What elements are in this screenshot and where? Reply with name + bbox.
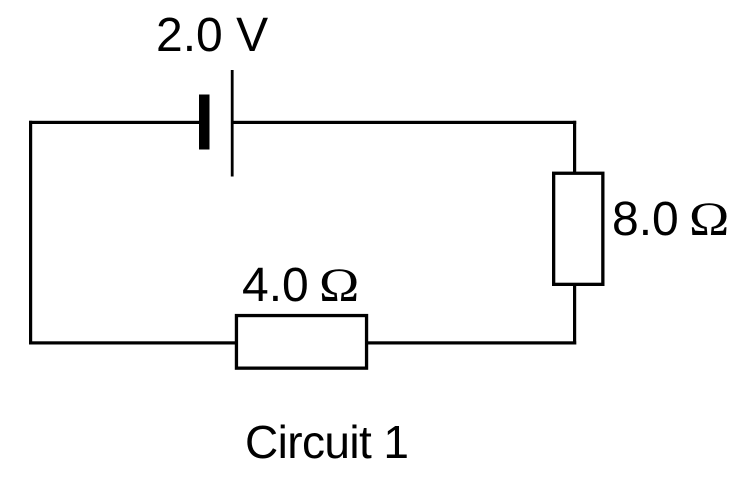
wire bottom-left segment (left corner to resistor R1) [29,341,236,344]
label resistor R2 value 8.0 ohm [612,196,724,244]
caption Circuit 1 [245,419,408,465]
battery V1 negative plate (short thick bar) [199,95,210,150]
label battery value 2.0 V [156,12,268,60]
wire right vertical lower (resistor R2 to bottom corner) [573,285,576,345]
wire top-right segment (battery positive to right corner) [234,121,577,124]
wire left vertical [29,121,32,345]
resistor R2 8.0 ohm (vertical box) [554,173,603,284]
wire bottom-right segment (resistor R1 to right corner) [367,341,576,344]
battery V1 positive plate (long thin bar) [231,70,234,177]
resistor R1 4.0 ohm (horizontal box) [236,316,366,369]
wire right vertical upper (top corner to resistor R2) [573,121,576,174]
label resistor R1 value 4.0 ohm [242,262,354,310]
wire top-left segment (battery negative to left corner) [29,121,199,124]
